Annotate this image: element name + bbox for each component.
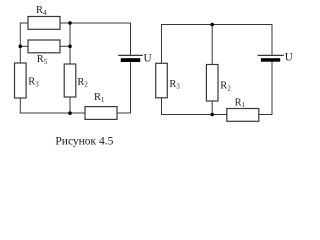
battery U thick plate (left circuit) [121,58,141,62]
wire: R3 bottom lead (right circuit) [161,98,163,115]
resistor R4 box [28,17,60,30]
resistor R2 box (right circuit) [206,65,218,102]
resistor R2 box (left circuit) [64,64,76,97]
resistor R5 box [28,40,60,53]
battery U thin plate (left circuit) [119,54,143,56]
junction dot: bottom wire / R2 [68,111,72,115]
junction dot: R5 right / connector [68,45,72,49]
resistor R3 box (right circuit) [156,63,168,98]
wire: R5 right stub [60,45,70,47]
wire: R1 right to battery bottom (right circuit) [259,62,272,115]
wire: R2 bottom lead [69,97,71,113]
junction dot: top wire / R2 branch (right circuit) [210,23,214,27]
wire: R4 right stub [60,22,70,24]
junction dot: R4 right / top wire [68,21,72,25]
wire: top wire to battery (left circuit) [70,23,131,55]
wire: right connector x=70 down to R2 [69,23,71,64]
wire: R1 right to battery bottom [117,62,131,113]
wire: top wire (right circuit) [162,25,273,64]
resistor R1 box (right circuit) [227,109,259,122]
resistor R1 box (left circuit) [85,107,117,120]
junction dot: bottom wire / R2 (right circuit) [210,113,214,117]
junction dot: left wire / R5 [19,45,23,49]
wire: bottom wire (right circuit) [162,114,227,116]
battery U thin plate (right circuit) [258,54,283,56]
resistor R3 box (left circuit) [15,63,27,98]
wire: middle branch down to R2 (right circuit) [211,25,213,65]
svg-text:Рисунок 4.5: Рисунок 4.5 [55,136,113,148]
wire: R5 left stub [20,45,28,47]
wire: left vertical (left circuit) [20,23,28,63]
wire: R2 bottom lead (right circuit) [211,101,213,115]
wire: bottom wire (left circuit) [20,112,85,114]
battery U thick plate (right circuit) [261,58,280,62]
wire: R3 bottom lead [19,98,21,113]
svg-text:U: U [144,52,152,64]
svg-text:U: U [285,52,293,64]
